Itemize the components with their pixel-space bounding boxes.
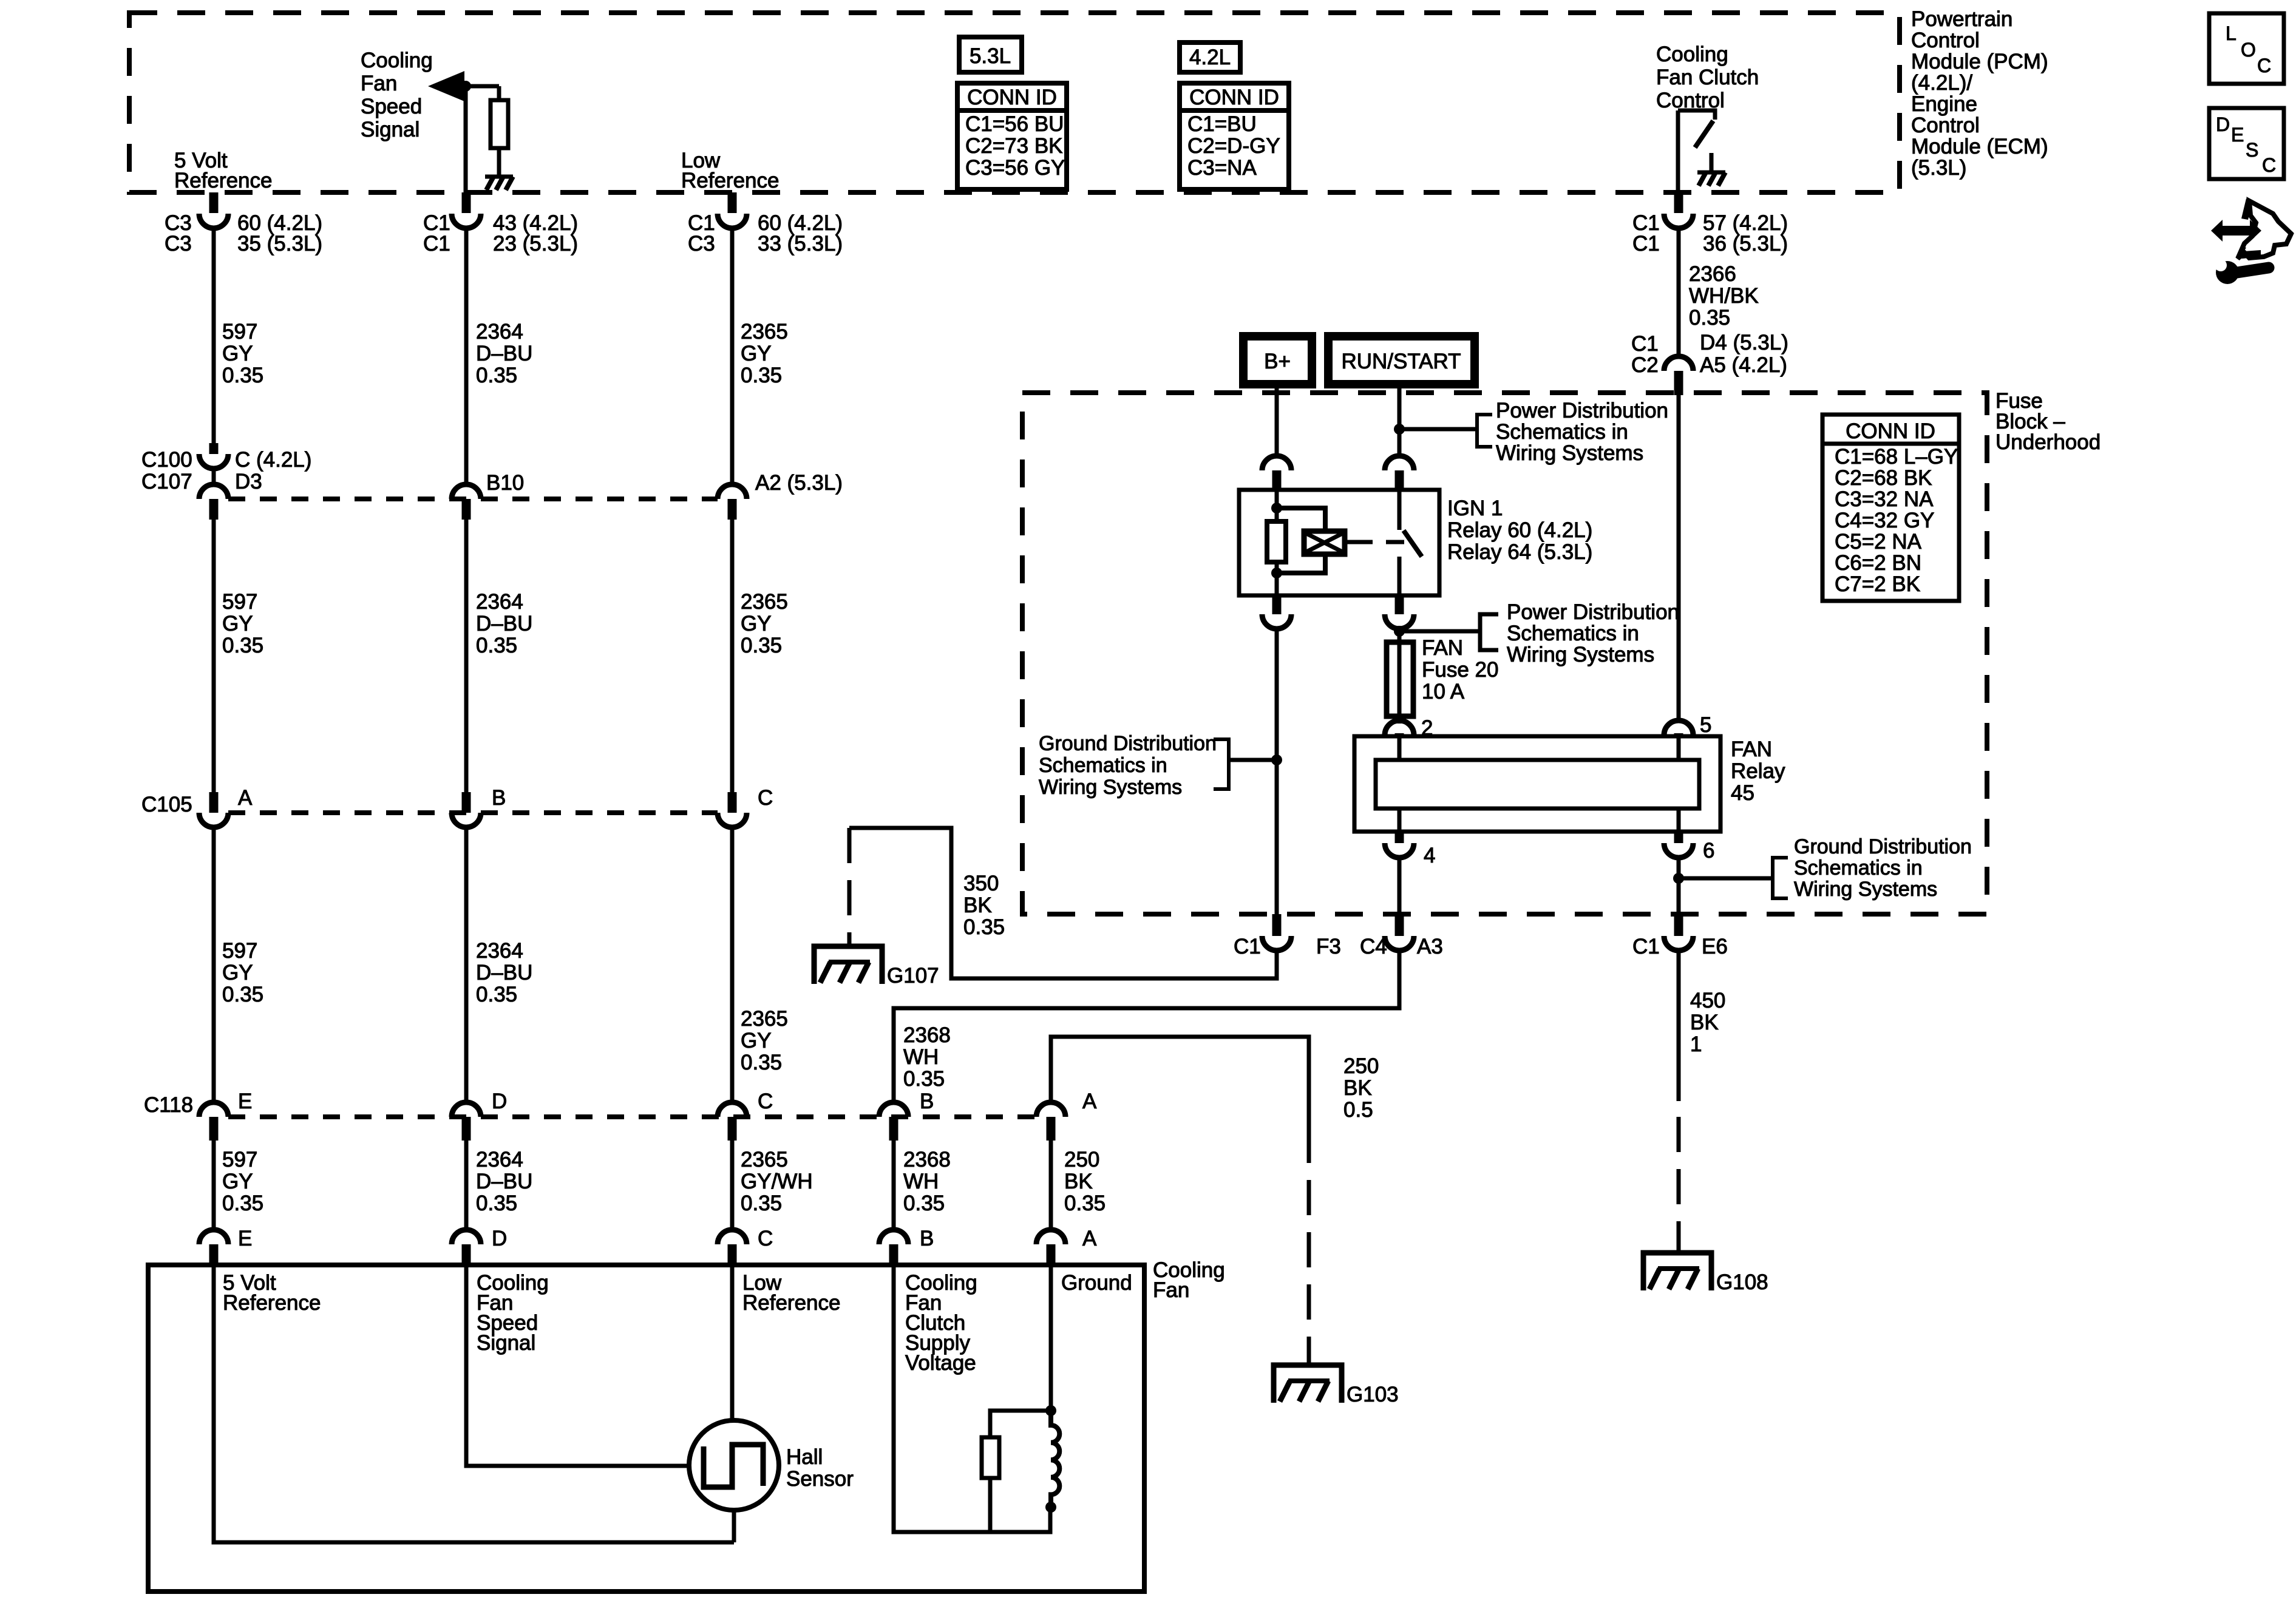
connector C4 A3 (fuse block bottom) xyxy=(1395,914,1404,936)
svg-text:C: C xyxy=(758,1090,773,1113)
node FAN fuse branch xyxy=(1394,626,1405,637)
svg-text:Ground: Ground xyxy=(1061,1271,1132,1295)
svg-text:2364: 2364 xyxy=(476,1148,523,1171)
wire B+ to IGN relay xyxy=(1275,384,1279,458)
wire 2368 WH segment to fan xyxy=(892,1139,896,1230)
svg-text:0.5: 0.5 xyxy=(1343,1098,1373,1122)
svg-text:0.35: 0.35 xyxy=(903,1067,945,1091)
wire 250 BK to G103 xyxy=(1051,1037,1309,1128)
svg-text:C3=32 NA: C3=32 NA xyxy=(1835,487,1934,511)
svg-text:597: 597 xyxy=(222,939,257,963)
svg-text:Schematics in: Schematics in xyxy=(1794,856,1923,880)
svg-text:A5 (4.2L): A5 (4.2L) xyxy=(1700,353,1787,377)
svg-text:B10: B10 xyxy=(486,471,524,495)
svg-text:45: 45 xyxy=(1731,781,1754,805)
ground G108 xyxy=(1643,1253,1711,1290)
svg-text:C2=68 BK: C2=68 BK xyxy=(1835,466,1932,490)
wire low ref into hall sensor xyxy=(730,1265,735,1422)
svg-text:D–BU: D–BU xyxy=(476,961,532,985)
connector FAN relay pin 6 xyxy=(1674,832,1683,843)
connector FAN relay pin 5 xyxy=(1664,720,1693,735)
wire resistor branch of clutch xyxy=(990,1411,1051,1439)
svg-text:C (4.2L): C (4.2L) xyxy=(235,448,311,472)
service icon tail stub xyxy=(2241,198,2253,220)
svg-text:GY: GY xyxy=(222,612,253,636)
svg-text:B: B xyxy=(492,786,506,810)
svg-text:0.35: 0.35 xyxy=(1064,1192,1106,1215)
IGN 1 relay box xyxy=(1239,490,1439,595)
resistor R1 (fan speed pull-up) xyxy=(491,100,508,148)
svg-text:597: 597 xyxy=(222,590,257,614)
svg-text:Signal: Signal xyxy=(477,1331,535,1355)
svg-text:Voltage: Voltage xyxy=(905,1351,976,1375)
connector C105 pins A B C xyxy=(209,792,219,813)
DESC reference box xyxy=(2209,108,2284,179)
svg-text:BK: BK xyxy=(1690,1011,1719,1034)
svg-text:C3: C3 xyxy=(688,232,715,256)
wire clutch control through fuse block xyxy=(1677,393,1681,721)
svg-text:CONN ID: CONN ID xyxy=(1846,419,1935,443)
svg-text:RUN/START: RUN/START xyxy=(1341,350,1461,373)
svg-text:Engine: Engine xyxy=(1911,92,1977,116)
5.3L tag box xyxy=(959,37,1022,72)
connector C1 F3 (fuse block bottom) xyxy=(1272,914,1282,936)
wire 2364 D-BU segment 4 xyxy=(464,1139,469,1230)
dashed wire drop to G107 xyxy=(847,828,852,945)
svg-text:1: 1 xyxy=(1690,1032,1702,1056)
svg-text:Fan: Fan xyxy=(1153,1278,1189,1302)
svg-text:D–BU: D–BU xyxy=(476,1170,532,1193)
cooling fan component box xyxy=(148,1265,1144,1592)
cooling fan speed signal arrow xyxy=(428,71,464,101)
svg-text:2366: 2366 xyxy=(1689,262,1736,286)
relay switch blade xyxy=(1398,490,1402,530)
svg-text:A: A xyxy=(1082,1090,1097,1113)
svg-text:Signal: Signal xyxy=(361,118,419,141)
FAN relay box xyxy=(1354,736,1720,832)
svg-text:GY/WH: GY/WH xyxy=(741,1170,813,1193)
svg-text:35 (5.3L): 35 (5.3L) xyxy=(237,232,322,256)
svg-text:WH: WH xyxy=(903,1045,939,1069)
svg-text:BK: BK xyxy=(963,893,992,917)
node ground distribution tap xyxy=(1271,754,1282,765)
svg-text:0.35: 0.35 xyxy=(222,1192,263,1215)
ground G107 xyxy=(814,946,882,984)
FAN relay element bar xyxy=(1376,760,1699,808)
wire fan speed inside fan box xyxy=(466,1265,691,1466)
B+ feed box xyxy=(1243,336,1312,384)
svg-text:2368: 2368 xyxy=(903,1148,951,1171)
svg-text:0.35: 0.35 xyxy=(741,364,782,387)
svg-text:D: D xyxy=(492,1227,507,1250)
resistor R2 (fan clutch) xyxy=(982,1437,999,1478)
dashed actuator link xyxy=(1345,540,1354,544)
svg-text:Fan: Fan xyxy=(361,72,397,95)
svg-text:CONN ID: CONN ID xyxy=(967,86,1057,109)
connector FAN relay pin 2 xyxy=(1385,720,1414,735)
svg-text:D–BU: D–BU xyxy=(476,612,532,636)
connector C1 PCM pin (low reference) xyxy=(728,192,737,213)
svg-text:D3: D3 xyxy=(235,470,262,493)
svg-text:CONN ID: CONN ID xyxy=(1189,86,1279,109)
fuse FAN 20 10A xyxy=(1387,642,1413,716)
svg-text:Reference: Reference xyxy=(174,169,272,192)
svg-text:GY: GY xyxy=(222,342,253,365)
svg-text:0.35: 0.35 xyxy=(1689,306,1730,330)
svg-text:6: 6 xyxy=(1703,839,1714,863)
cooling fan connector pins E D C B A xyxy=(199,1230,228,1244)
connector C1 PCM pin (clutch control) xyxy=(1674,192,1683,213)
bracket power distribution 1 xyxy=(1477,415,1492,447)
svg-text:C1=56 BU: C1=56 BU xyxy=(965,112,1064,136)
dashed connector row line C105 xyxy=(228,810,718,815)
svg-text:WH: WH xyxy=(903,1170,939,1193)
ground G103 xyxy=(1274,1365,1342,1403)
svg-text:Reference: Reference xyxy=(681,169,779,192)
svg-text:F3: F3 xyxy=(1316,935,1341,958)
ground (PCM internal, fan speed) xyxy=(485,175,513,179)
svg-text:C2=D-GY: C2=D-GY xyxy=(1187,134,1280,158)
svg-text:C3=NA: C3=NA xyxy=(1187,156,1257,180)
svg-text:(5.3L): (5.3L) xyxy=(1911,156,1966,180)
svg-text:23 (5.3L): 23 (5.3L) xyxy=(493,232,578,256)
wire relay coil lower xyxy=(1275,562,1279,595)
svg-text:0.35: 0.35 xyxy=(903,1192,945,1215)
node ground distribution tap 2 xyxy=(1673,873,1684,884)
svg-text:2365: 2365 xyxy=(741,1148,788,1171)
svg-text:Schematics in: Schematics in xyxy=(1507,622,1639,645)
svg-text:33 (5.3L): 33 (5.3L) xyxy=(758,232,843,256)
wire resistor to ground xyxy=(497,148,501,176)
hall sensor square-wave glyph xyxy=(704,1445,763,1487)
wire 2365 GY segment 3 xyxy=(730,827,735,1102)
svg-text:E: E xyxy=(2231,124,2244,146)
svg-text:O: O xyxy=(2241,39,2256,61)
svg-text:Wiring Systems: Wiring Systems xyxy=(1496,441,1643,465)
clutch control driver (switch symbol) xyxy=(1678,110,1715,120)
wire 2365 GY segment 2 xyxy=(730,518,735,793)
svg-text:G108: G108 xyxy=(1716,1270,1768,1294)
svg-text:C2: C2 xyxy=(1631,353,1659,377)
svg-text:C: C xyxy=(2257,55,2271,76)
svg-text:C7=2 BK: C7=2 BK xyxy=(1835,572,1920,596)
svg-text:Control: Control xyxy=(1911,29,1980,52)
connector IGN relay out (RUN side) xyxy=(1395,595,1404,614)
dashed wire drop to G103 xyxy=(1307,1128,1311,1364)
svg-text:C5=2 NA: C5=2 NA xyxy=(1835,530,1922,554)
svg-text:C118: C118 xyxy=(144,1093,193,1117)
node junction on fan speed signal line xyxy=(460,81,471,92)
wire relay pin5 internal xyxy=(1677,736,1681,760)
dashed connector row line C100/C107 xyxy=(228,497,718,501)
service icon double arrow xyxy=(2211,220,2261,242)
connector C118 pins E D C B A xyxy=(199,1102,228,1117)
wire relay pin4 to fuse block edge xyxy=(1398,856,1402,914)
svg-text:2365: 2365 xyxy=(741,590,788,614)
svg-text:Fan Clutch: Fan Clutch xyxy=(1656,66,1759,89)
svg-text:D4 (5.3L): D4 (5.3L) xyxy=(1700,331,1788,354)
4.2L tag box xyxy=(1180,42,1240,72)
svg-text:C1=BU: C1=BU xyxy=(1187,112,1257,136)
wire clutch supply inside fan box xyxy=(894,1265,1050,1532)
svg-text:C1: C1 xyxy=(423,232,450,256)
svg-text:IGN 1: IGN 1 xyxy=(1447,497,1503,520)
svg-text:Ground Distribution: Ground Distribution xyxy=(1794,835,1972,858)
wire relay pin4 internal xyxy=(1398,808,1402,832)
svg-text:Reference: Reference xyxy=(742,1291,840,1315)
PCM module outline (dashed box) xyxy=(129,13,1900,192)
svg-text:GY: GY xyxy=(741,1029,772,1053)
svg-text:C1=68 L–GY: C1=68 L–GY xyxy=(1835,445,1958,469)
svg-text:FAN: FAN xyxy=(1731,737,1772,761)
svg-text:36 (5.3L): 36 (5.3L) xyxy=(1703,232,1788,256)
wire 597 GY segment 1 xyxy=(212,228,216,444)
svg-text:D: D xyxy=(2216,114,2230,135)
svg-text:0.35: 0.35 xyxy=(963,915,1005,939)
dashed connector row line C118 xyxy=(228,1114,1036,1119)
wire relay pin6 internal xyxy=(1677,808,1681,832)
hall sensor circle xyxy=(689,1420,779,1510)
wire relay coil feed xyxy=(1275,490,1279,521)
CONN ID table (fuse block) xyxy=(1822,415,1959,601)
wire fan speed signal vertical inside PCM xyxy=(464,86,468,192)
svg-text:Wiring Systems: Wiring Systems xyxy=(1794,878,1937,901)
wire to power distribution note 1 xyxy=(1399,427,1477,432)
fuse block underhood outline (dashed box) xyxy=(1022,393,1987,914)
wire 2368 WH from A3 xyxy=(894,949,1399,1103)
dashed wire drop to G108 xyxy=(1677,1117,1681,1252)
svg-text:2364: 2364 xyxy=(476,320,523,344)
svg-text:Reference: Reference xyxy=(223,1291,321,1315)
svg-text:C100: C100 xyxy=(141,448,192,472)
svg-text:C6=2 BN: C6=2 BN xyxy=(1835,551,1921,575)
wire 2364 D-BU segment 3 xyxy=(464,827,469,1102)
svg-text:GY: GY xyxy=(741,342,772,365)
connector B10 (fan speed) xyxy=(452,484,481,499)
svg-text:GY: GY xyxy=(741,612,772,636)
svg-text:250: 250 xyxy=(1064,1148,1099,1171)
wire B+ through fuse block xyxy=(1275,628,1279,914)
svg-text:C: C xyxy=(2262,154,2276,176)
wire relay winding loop xyxy=(1277,508,1325,531)
connector C1 E6 (fuse block bottom) xyxy=(1674,914,1683,936)
wire 2366 WH/BK segment xyxy=(1677,228,1681,358)
svg-text:E6: E6 xyxy=(1702,935,1728,958)
svg-text:B+: B+ xyxy=(1264,350,1291,373)
svg-text:BK: BK xyxy=(1064,1170,1093,1193)
wire relay pin6 to fuse block edge xyxy=(1677,856,1681,914)
svg-text:(4.2L)/: (4.2L)/ xyxy=(1911,71,1972,95)
svg-text:C1: C1 xyxy=(1632,232,1660,256)
svg-text:0.35: 0.35 xyxy=(476,1192,517,1215)
node clutch coil bottom xyxy=(1045,1502,1056,1513)
node relay coil top xyxy=(1271,503,1282,514)
wire to pull-up resistor xyxy=(497,86,501,102)
svg-text:0.35: 0.35 xyxy=(222,364,263,387)
connector A2 (low ref) xyxy=(718,484,747,499)
svg-text:B: B xyxy=(920,1090,934,1113)
svg-text:250: 250 xyxy=(1343,1054,1379,1078)
wire relay pin2 internal xyxy=(1398,736,1402,760)
svg-text:2365: 2365 xyxy=(741,320,788,344)
svg-text:C1: C1 xyxy=(1632,935,1660,958)
node relay coil bottom xyxy=(1271,568,1282,578)
svg-text:0.35: 0.35 xyxy=(222,634,263,657)
LOC reference box xyxy=(2209,13,2284,84)
svg-text:FAN: FAN xyxy=(1422,636,1463,660)
svg-text:Relay: Relay xyxy=(1731,759,1785,783)
svg-text:2365: 2365 xyxy=(741,1007,788,1031)
CONN ID table (4.2L) xyxy=(1180,83,1289,189)
wire 2364 D-BU segment 2 xyxy=(464,518,469,793)
svg-text:0.35: 0.35 xyxy=(741,1051,782,1074)
connector C100/C107 (5V ref) xyxy=(209,443,219,454)
svg-text:A: A xyxy=(238,786,253,810)
svg-text:0.35: 0.35 xyxy=(476,983,517,1006)
svg-text:10 A: 10 A xyxy=(1422,680,1465,703)
service icon outline shape xyxy=(2238,201,2291,259)
node RUN/START branch xyxy=(1394,424,1405,435)
bracket ground distribution 1 xyxy=(1214,739,1229,789)
svg-text:G103: G103 xyxy=(1347,1383,1399,1406)
svg-text:C: C xyxy=(758,1227,773,1250)
svg-text:0.35: 0.35 xyxy=(476,364,517,387)
svg-text:Schematics in: Schematics in xyxy=(1039,754,1167,777)
connector FAN relay pin 4 xyxy=(1395,832,1404,843)
svg-text:E: E xyxy=(238,1227,252,1250)
svg-text:WH/BK: WH/BK xyxy=(1689,284,1759,308)
svg-text:450: 450 xyxy=(1690,989,1725,1012)
ground (PCM internal, clutch driver) xyxy=(1710,153,1714,172)
svg-text:GY: GY xyxy=(222,961,253,985)
svg-text:S: S xyxy=(2246,139,2258,161)
RUN/START feed box xyxy=(1328,336,1475,384)
resistor (IGN relay coil) xyxy=(1267,521,1286,562)
svg-text:Ground Distribution: Ground Distribution xyxy=(1039,732,1217,755)
svg-text:Module (ECM): Module (ECM) xyxy=(1911,135,2048,158)
svg-text:Fuse 20: Fuse 20 xyxy=(1422,658,1498,682)
svg-text:Power Distribution: Power Distribution xyxy=(1496,399,1668,422)
svg-text:Cooling: Cooling xyxy=(1656,42,1728,66)
svg-text:Hall: Hall xyxy=(786,1445,823,1469)
svg-text:C1: C1 xyxy=(1234,935,1261,958)
wire to ground distribution note 2 xyxy=(1679,876,1773,881)
wire 250 BK segment to fan xyxy=(1049,1139,1053,1230)
wire 597 GY segment 4 xyxy=(212,1139,216,1230)
svg-text:E: E xyxy=(238,1090,252,1113)
svg-text:Relay 60 (4.2L): Relay 60 (4.2L) xyxy=(1447,518,1592,542)
wire 5V ref inside fan box xyxy=(214,1265,734,1542)
svg-text:Power Distribution: Power Distribution xyxy=(1507,600,1679,624)
wire clutch control vertical inside PCM xyxy=(1676,110,1680,192)
connector IGN relay out (B+ side) xyxy=(1272,595,1282,614)
svg-text:Cooling: Cooling xyxy=(361,49,433,72)
svg-text:C4=32 GY: C4=32 GY xyxy=(1835,509,1934,532)
wire relay winding loop lower xyxy=(1277,554,1325,573)
svg-text:C4: C4 xyxy=(1360,935,1387,958)
connector C1 PCM pin (5V reference) xyxy=(209,192,219,213)
service icon wrench xyxy=(2216,261,2239,284)
connector C2 pin into fuse block xyxy=(1664,356,1693,371)
svg-text:Wiring Systems: Wiring Systems xyxy=(1039,776,1182,799)
svg-text:Relay 64 (5.3L): Relay 64 (5.3L) xyxy=(1447,540,1592,564)
connector C1 PCM pin (fan speed signal) xyxy=(462,192,471,213)
svg-text:Speed: Speed xyxy=(361,95,422,118)
svg-text:GY: GY xyxy=(222,1170,253,1193)
svg-text:597: 597 xyxy=(222,1148,257,1171)
svg-text:B: B xyxy=(920,1227,934,1250)
svg-text:BK: BK xyxy=(1343,1076,1372,1100)
bracket power distribution 2 xyxy=(1480,614,1498,650)
svg-text:L: L xyxy=(2226,22,2237,44)
svg-text:0.35: 0.35 xyxy=(741,634,782,657)
svg-text:Sensor: Sensor xyxy=(786,1467,854,1491)
svg-text:4: 4 xyxy=(1424,844,1435,867)
svg-text:C2=73 BK: C2=73 BK xyxy=(965,134,1063,158)
wire 597 GY segment 3 xyxy=(212,827,216,1102)
node clutch coil top xyxy=(1045,1405,1056,1416)
wire 2365 GY/WH segment 4 xyxy=(730,1139,735,1230)
wire ground lead inside fan box xyxy=(1049,1265,1053,1412)
svg-text:2364: 2364 xyxy=(476,939,523,963)
svg-text:D: D xyxy=(492,1090,507,1113)
svg-text:2368: 2368 xyxy=(903,1023,951,1047)
svg-text:A3: A3 xyxy=(1417,935,1443,958)
wire to power distribution note 2 xyxy=(1399,629,1480,634)
svg-text:5.3L: 5.3L xyxy=(970,44,1011,68)
svg-text:597: 597 xyxy=(222,320,257,344)
wire ignition feed through FAN fuse xyxy=(1398,628,1402,724)
wire RUN/START down xyxy=(1398,384,1402,458)
svg-text:Wiring Systems: Wiring Systems xyxy=(1507,643,1654,666)
svg-text:Underhood: Underhood xyxy=(1995,430,2101,454)
svg-text:Module (PCM): Module (PCM) xyxy=(1911,50,2048,73)
wire 2364 D-BU segment 1 xyxy=(464,228,469,486)
svg-text:A: A xyxy=(1082,1227,1097,1250)
svg-text:Powertrain: Powertrain xyxy=(1911,7,2012,31)
wire 2365 GY segment 1 xyxy=(730,228,735,486)
svg-text:2364: 2364 xyxy=(476,590,523,614)
wire 597 GY segment 2 xyxy=(212,518,216,793)
svg-text:350: 350 xyxy=(963,872,999,895)
svg-text:C: C xyxy=(758,786,773,810)
CONN ID table (5.3L) xyxy=(957,83,1067,189)
svg-text:0.35: 0.35 xyxy=(476,634,517,657)
relay winding box with X xyxy=(1304,531,1345,554)
wire 450 BK from E6 xyxy=(1677,949,1681,1101)
svg-text:G107: G107 xyxy=(887,964,939,988)
bracket ground distribution 2 xyxy=(1773,858,1788,898)
wire hall sensor to 5V return xyxy=(732,1510,736,1542)
svg-text:5: 5 xyxy=(1700,713,1711,737)
svg-text:A2 (5.3L): A2 (5.3L) xyxy=(755,471,843,495)
svg-text:C3: C3 xyxy=(165,232,192,256)
wire to ground distribution note 1 xyxy=(1229,758,1277,762)
connector RUN/START into fuse block xyxy=(1385,456,1414,470)
inductor L1 (fan clutch coil) xyxy=(1051,1411,1059,1507)
connector B+ into fuse block xyxy=(1262,456,1291,470)
svg-text:C105: C105 xyxy=(141,793,192,816)
svg-text:Schematics in: Schematics in xyxy=(1496,420,1628,444)
svg-text:0.35: 0.35 xyxy=(222,983,263,1006)
svg-text:0.35: 0.35 xyxy=(741,1192,782,1215)
svg-text:C107: C107 xyxy=(141,470,192,493)
svg-text:D–BU: D–BU xyxy=(476,342,532,365)
svg-text:Control: Control xyxy=(1911,114,1980,137)
service icon lower tick xyxy=(2237,246,2261,259)
wire resistor branch lower xyxy=(988,1478,993,1532)
svg-text:4.2L: 4.2L xyxy=(1189,46,1231,69)
